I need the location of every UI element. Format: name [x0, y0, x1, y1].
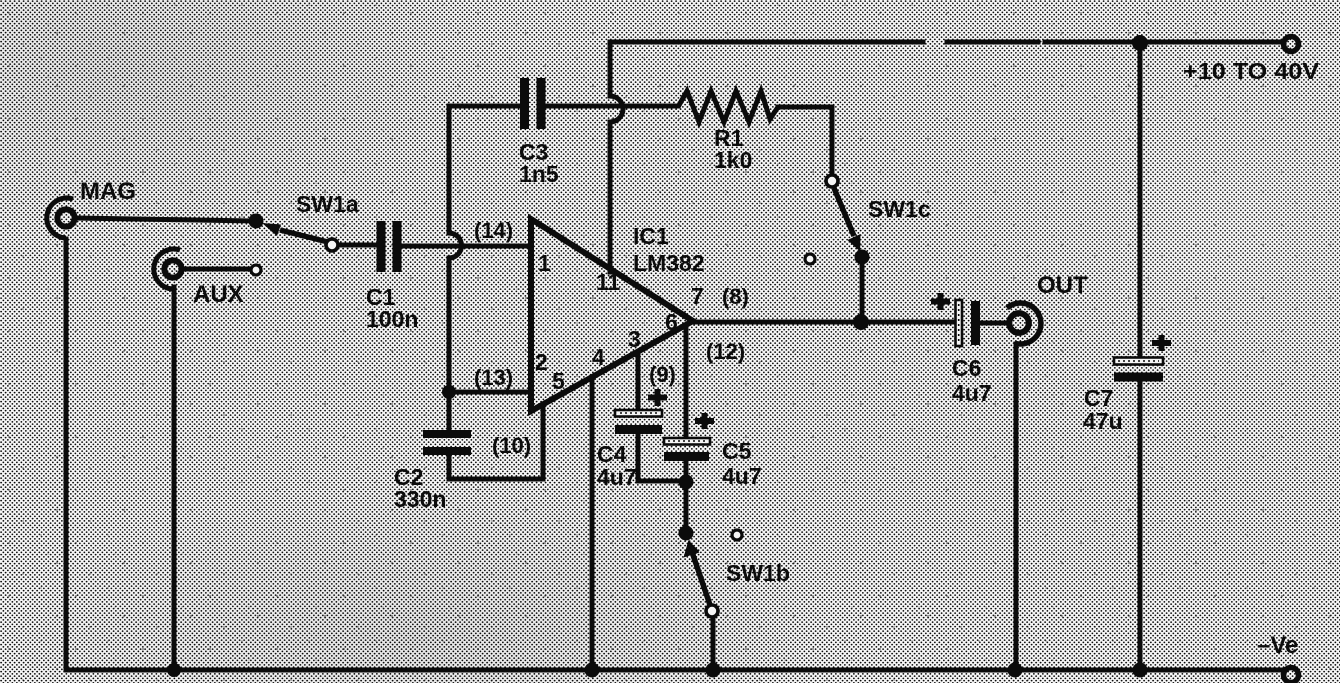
resistor R1 1k0 zigzag — [678, 91, 778, 122]
capacitor C4 polarity + — [648, 389, 667, 406]
capacitor C6 electrolytic plates — [956, 300, 981, 346]
svg-text:2: 2 — [535, 349, 548, 375]
wire: MAG terminal to SW1a pole — [77, 218, 254, 221]
wire: AUX terminal drop to -Ve rail — [172, 287, 177, 670]
svg-text:(8): (8) — [722, 284, 749, 309]
svg-text:(9): (9) — [649, 362, 676, 387]
svg-text:4u7: 4u7 — [952, 380, 992, 406]
wire: C7 negative plate down to -Ve rail — [1138, 381, 1143, 668]
svg-text:MAG: MAG — [80, 178, 136, 205]
wire: C6 positive side to OUT terminal — [979, 321, 1006, 326]
wire: +V top rail left segment — [610, 40, 923, 45]
switch SW1a — [249, 214, 339, 252]
svg-text:C5: C5 — [722, 438, 752, 464]
svg-text:11: 11 — [596, 269, 621, 295]
terminal MAG — [47, 198, 75, 238]
switch SW1b — [679, 526, 719, 618]
capacitor C3 plates — [520, 78, 546, 129]
svg-text:SW1c: SW1c — [868, 196, 931, 222]
svg-text:C6: C6 — [952, 355, 981, 381]
wire: C4 negative plate to SW1b node — [638, 433, 684, 481]
terminal +10 TO 40V — [1284, 37, 1299, 52]
junction node: C7 / -Ve rail — [1133, 663, 1148, 678]
terminal -Ve — [1284, 668, 1299, 683]
wire: +V top rail right segment — [947, 40, 1038, 45]
terminal AUX — [154, 249, 182, 289]
capacitor C1 plates — [377, 221, 402, 272]
svg-text:330n: 330n — [394, 486, 446, 512]
wire: IC1 pin 6 down to C5 — [684, 327, 689, 439]
wire: top rail junction down to C7 — [1138, 44, 1143, 358]
svg-text:(10): (10) — [492, 433, 531, 458]
wire: C5 negative plate down to SW1b pole — [684, 459, 689, 529]
junction node: output / SW1c — [853, 314, 869, 330]
wire: +V top rail right segment 2 — [1045, 40, 1281, 45]
junction node: top rail / C7 — [1132, 35, 1148, 51]
svg-text:1n5: 1n5 — [519, 161, 559, 187]
wire: -Ve bottom rail — [66, 668, 1282, 673]
wire: C3 left plate to pin1 node vertical (hop over input wire) — [449, 106, 522, 390]
junction node: (13)/C2 — [442, 385, 456, 399]
svg-text:4u7: 4u7 — [722, 463, 762, 489]
svg-text:1k0: 1k0 — [714, 147, 752, 173]
wire: SW1a moving contact to C1 — [339, 243, 378, 248]
svg-text:4u7: 4u7 — [597, 464, 637, 490]
capacitor C7 electrolytic plates — [1114, 358, 1163, 382]
wire: node at (13) to IC1 pin 2 — [449, 390, 529, 395]
svg-text:6: 6 — [665, 309, 678, 335]
switch SW1a unused AUX contact — [251, 265, 261, 275]
wire: MAG terminal drop to -Ve rail — [64, 239, 69, 670]
junction node: C4/C5/SW1b — [679, 475, 694, 490]
svg-text:(12): (12) — [706, 339, 745, 364]
svg-text:AUX: AUX — [193, 281, 244, 308]
wire: C1 to IC1 input pin 1 (14) — [400, 244, 529, 249]
svg-text:3: 3 — [628, 326, 641, 352]
svg-text:LM382: LM382 — [633, 250, 705, 276]
wire: IC1 output pin 7 to C6 — [693, 320, 955, 325]
capacitor C7 polarity + — [1152, 335, 1171, 351]
capacitor C4 electrolytic plates — [615, 410, 662, 434]
wire: SW1b bottom contact down to -Ve rail — [711, 617, 716, 668]
svg-text:SW1b: SW1b — [726, 560, 790, 586]
junction node: AUX / -Ve rail — [167, 663, 181, 677]
svg-text:5: 5 — [552, 368, 565, 394]
wire: AUX terminal to open contact — [184, 267, 249, 272]
junction node: pin4 line / -Ve rail — [585, 663, 600, 678]
svg-text:OUT: OUT — [1037, 272, 1088, 299]
wire: top rail corner down to IC1 pin 11 (vertical, with hop over C3-R1 wire) — [610, 42, 623, 272]
switch SW1c unused contact — [805, 254, 815, 264]
wire: OUT terminal drop to -Ve rail — [1014, 344, 1019, 668]
svg-text:–Ve: –Ve — [1257, 632, 1298, 659]
terminal OUT — [1007, 303, 1041, 344]
wire: (13) node down to C2 top plate — [447, 392, 452, 431]
wire: IC1 pin 3 down to C4 — [636, 353, 641, 411]
svg-text:7: 7 — [691, 283, 704, 309]
capacitor C2 plates — [423, 430, 471, 455]
wire: R1 right lead to SW1c fixed contact — [778, 107, 832, 174]
svg-text:100n: 100n — [366, 306, 418, 332]
svg-text:4: 4 — [592, 344, 605, 370]
op-amp U1 IC1 LM382 triangle — [531, 219, 693, 411]
capacitor C6 polarity + — [931, 293, 950, 310]
svg-text:47u: 47u — [1083, 408, 1123, 434]
junction node: OUT drop / -Ve rail — [1008, 663, 1023, 678]
switch SW1b unused contact — [732, 530, 742, 540]
switch SW1c — [826, 175, 870, 265]
capacitor C5 electrolytic plates — [664, 438, 710, 461]
svg-text:(13): (13) — [474, 365, 513, 390]
svg-text:+10 TO 40V: +10 TO 40V — [1183, 58, 1320, 84]
svg-text:(14): (14) — [474, 218, 513, 243]
wire: IC1 pins 4,5 ground line down to -Ve rail — [590, 378, 595, 668]
svg-text:1: 1 — [538, 250, 551, 276]
capacitor C5 polarity + — [695, 413, 714, 429]
svg-text:IC1: IC1 — [633, 223, 669, 249]
junction node: SW1b / -Ve rail — [706, 663, 721, 678]
svg-text:SW1a: SW1a — [296, 191, 359, 217]
wire: C2 bottom plate loop to pin 5 (10) stub — [449, 404, 543, 479]
wire: SW1c pole down to output node — [860, 263, 865, 322]
wire: C3 right plate to R1 left lead — [545, 104, 678, 109]
